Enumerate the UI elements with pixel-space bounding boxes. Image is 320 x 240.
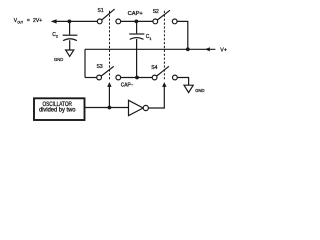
svg-text:2V+: 2V+ [33,18,42,24]
svg-text:GND: GND [54,57,64,63]
svg-text:CAP−: CAP− [121,83,134,89]
svg-text:V+: V+ [220,47,227,53]
svg-text:=: = [27,18,30,24]
svg-text:OUT: OUT [17,20,23,24]
svg-text:S1: S1 [98,8,104,14]
svg-text:S3: S3 [97,64,103,70]
svg-text:S4: S4 [151,65,157,71]
svg-text:divided by two: divided by two [39,108,76,114]
svg-text:2: 2 [56,35,58,39]
svg-text:S2: S2 [153,9,159,15]
svg-text:1: 1 [149,37,151,41]
svg-text:CAP+: CAP+ [128,11,143,17]
svg-text:GND: GND [195,88,205,94]
